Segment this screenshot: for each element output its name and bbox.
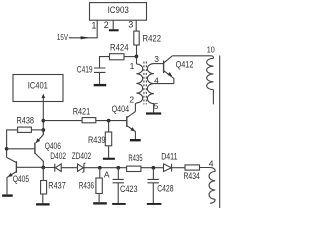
svg-text:R421: R421 [73,107,91,117]
capacitor C419 [94,68,106,72]
svg-text:15V: 15V [57,33,69,42]
wire pin1 IC903 riser [69,20,97,38]
svg-text:Q406: Q406 [45,141,61,151]
wire R438 left down [7,130,18,158]
transistor Q404 [126,116,128,127]
transistor Q405 [15,161,17,173]
resistor R422 [134,31,139,45]
transformer T secondary winding pins 3-4-5 [147,64,153,104]
ground pin2 IC903 [109,29,119,31]
wire R439 top [108,121,110,132]
svg-text:D411: D411 [161,152,177,162]
ground Q404 emitter [130,139,141,141]
wire R439 bottom [108,146,110,158]
wire R436 top [99,168,101,178]
node R439 junction [107,119,111,123]
node Q406 collector / A line [41,166,45,170]
svg-text:Q412: Q412 [176,60,194,70]
svg-text:C419: C419 [77,65,93,75]
svg-text:3: 3 [128,20,133,30]
svg-text:C423: C423 [120,184,138,194]
wire D411 to R434 [172,167,185,169]
wire pin2 IC903 [112,20,114,29]
wire R424 left to C419 [100,57,110,68]
resistor R435 [127,166,141,171]
winding pin4 bottom right [209,172,215,200]
diode D411 [164,164,172,172]
resistor R438 [18,127,32,132]
capacitor C428 [152,168,154,180]
resistor R436 [96,178,102,194]
svg-text:R434: R434 [184,171,200,181]
wire R436 bottom [98,194,100,203]
capacitor C423 [117,168,119,180]
svg-text:IC401: IC401 [28,80,48,90]
svg-text:2: 2 [104,20,109,30]
wire winding bottom tail [210,199,215,203]
svg-text:R437: R437 [48,181,66,191]
ground Q405 emitter [2,194,13,196]
svg-text:4: 4 [154,75,159,85]
wire R424 right [124,56,137,58]
node R421 junction [41,119,45,123]
node R438 junction [41,128,45,132]
wire right edge bus [219,56,221,209]
wire Q412 collector rail [172,55,211,57]
wire A line left [43,167,55,169]
ground C428 [147,203,162,205]
resistor R421 [82,118,96,123]
svg-text:1: 1 [91,20,96,30]
wire pin5 to ground [153,104,155,113]
svg-text:5: 5 [154,101,159,111]
transistor Q406 [36,130,44,143]
svg-text:R436: R436 [79,181,94,191]
svg-text:Q404: Q404 [112,104,130,114]
ground pin5 [146,112,161,114]
svg-text:R439: R439 [88,135,106,145]
wire R421 to Q404 base [96,120,127,122]
ground C423 [112,203,126,205]
ground R436 [93,202,107,204]
wire D402 to ZD402 [61,167,77,169]
wire R437 bottom [42,194,44,203]
wire pin3 tap to Q412 base [154,63,164,65]
svg-text:10: 10 [207,45,215,55]
resistor R439 [105,132,111,146]
wire IC401 down column [42,102,44,135]
svg-text:A: A [104,169,110,179]
transformer T primary winding pins 1-2 [136,64,142,103]
svg-text:D402: D402 [50,151,66,161]
svg-text:2: 2 [129,95,134,105]
svg-text:4: 4 [209,158,214,168]
ground R437 [36,203,50,205]
resistor R437 [41,181,47,195]
node junction R422/R424/T primary [135,55,139,59]
winding pin10 top right [211,56,213,59]
wire R438 right [31,129,43,131]
zener diode ZD402 [78,164,84,171]
wire R434 right corner [200,168,216,172]
svg-text:3: 3 [154,54,159,64]
IC401 box [13,75,63,102]
wire C419 bottom [99,72,101,84]
wire Q412 emitter to tap4 [154,83,174,85]
svg-text:IC903: IC903 [108,5,129,15]
wire pin10 winding bottom [212,90,214,105]
node C428 junction [152,166,156,170]
transistor Q412 [163,61,165,74]
transformer core [144,62,146,105]
ground R439 [103,158,115,160]
wire R435 to D411 [141,167,164,169]
svg-text:R422: R422 [143,33,162,43]
wire ZD402 to node A [84,167,127,169]
resistor R434 [185,165,200,170]
ground C419 [94,84,107,86]
15V supply arrow [81,36,90,39]
svg-text:Q405: Q405 [13,174,30,184]
svg-text:R424: R424 [110,42,129,52]
IC401 internal arrow [42,97,44,102]
wire pin3 IC903 [135,20,137,31]
node Q405/Q406 base junction [5,147,9,151]
wire R422 bottom [136,45,138,56]
svg-text:1: 1 [130,61,135,71]
wire to R421 [43,120,82,122]
svg-text:R438: R438 [17,115,35,125]
IC903 box U903 [90,3,147,21]
diode D402 [54,164,56,172]
resistor R424 [110,54,125,60]
node C423 junction [116,166,120,170]
svg-text:C428: C428 [157,184,173,194]
wire primary bottom to Q404 collector [135,103,136,112]
wire R437 top [42,168,44,181]
wire primary top [136,56,138,64]
node A junction [98,166,102,170]
svg-text:R435: R435 [128,153,142,163]
svg-text:ZD402: ZD402 [72,151,91,161]
